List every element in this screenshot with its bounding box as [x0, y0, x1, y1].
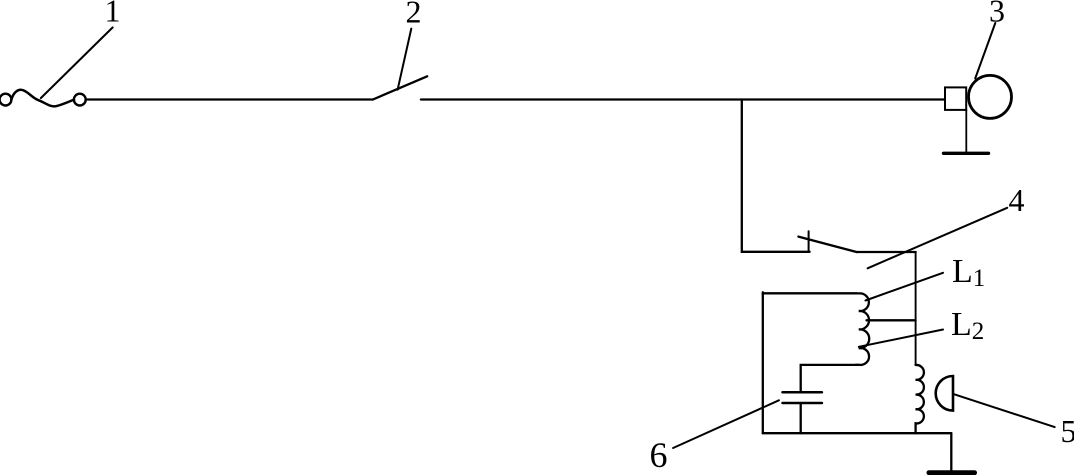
leader line to label L1 [866, 273, 944, 301]
lamp 3 bulb circle [969, 75, 1012, 118]
svg-text:5: 5 [1061, 413, 1074, 449]
ground bar bottom right [929, 470, 975, 475]
lamp 3 base square [945, 87, 966, 110]
svg-text:1: 1 [105, 0, 121, 29]
wire from lead-in 1 to switch 2 [86, 98, 373, 100]
coil tap wire to right vertical [867, 319, 916, 321]
leader line to label 3 [975, 23, 995, 79]
svg-text:L1: L1 [952, 253, 985, 292]
capacitor 6 top plate [783, 391, 822, 394]
earphone 5 (half-disc) [936, 376, 953, 411]
wire from switch 4 to right vertical node [857, 251, 916, 253]
wire from switch 2 to lamp 3 [421, 98, 945, 100]
switch 4 blade [798, 237, 857, 253]
svg-text:L2: L2 [951, 306, 984, 345]
switch 4 contact tick [808, 231, 810, 252]
leader line to label 5 [954, 394, 1055, 427]
terminal circle (right) of lead-in 1 [74, 94, 86, 106]
capacitor 6 bottom lead [800, 404, 802, 433]
svg-text:2: 2 [406, 0, 422, 30]
leader line to label 2 [398, 29, 412, 90]
leader line to label 1 [41, 27, 113, 98]
coil of earphone circuit (right winding) [916, 365, 924, 433]
coil L1-L2 (four turns) [856, 293, 869, 365]
wire from lamp 3 down to earth bar [965, 110, 967, 152]
svg-text:4: 4 [1009, 182, 1025, 218]
tank circuit bottom wire [763, 432, 952, 434]
flexible-wire curve of lead-in 1 [11, 90, 74, 107]
tank circuit top wire [763, 292, 856, 294]
earth bar under lamp 3 [944, 152, 989, 155]
leader line to label 4 [868, 208, 1008, 268]
capacitor 6 bottom plate [783, 402, 822, 405]
svg-text:3: 3 [989, 0, 1005, 29]
ground wire bottom right [950, 433, 952, 470]
leader line to label 6 [673, 400, 779, 448]
svg-text:6: 6 [650, 435, 668, 475]
terminal circle (left) of lead-in 1 [0, 94, 11, 106]
wire below coil to capacitor lead [801, 365, 856, 391]
leader line to label L2 [859, 330, 943, 347]
switch 2 blade [373, 76, 427, 99]
wire: right vertical from switch 4 down to coil 5 winding [915, 252, 917, 365]
branch wire: down from main wire then right to switch 4 [742, 100, 810, 252]
tank circuit left vertical wire [762, 292, 764, 433]
